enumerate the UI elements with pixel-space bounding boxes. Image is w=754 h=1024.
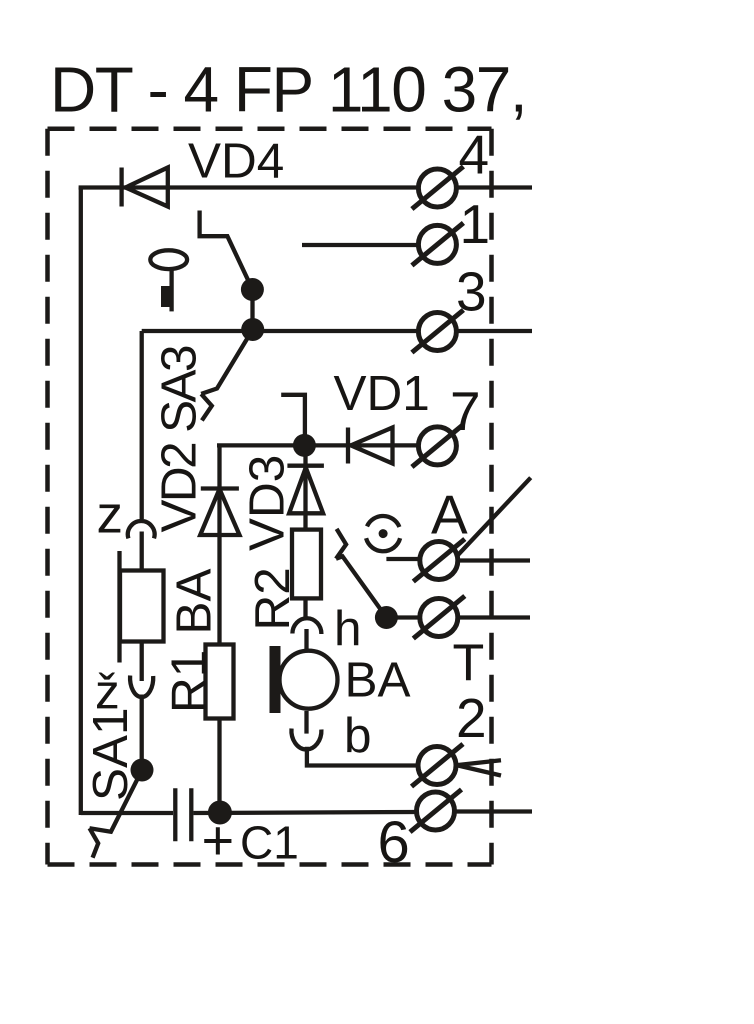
svg-text:DT - 4 FP 110 37,: DT - 4 FP 110 37,	[50, 54, 526, 126]
svg-text:R2: R2	[245, 567, 300, 630]
svg-text:SA1: SA1	[83, 707, 138, 801]
svg-text:R1: R1	[162, 650, 217, 713]
svg-text:7: 7	[450, 380, 481, 442]
svg-text:1: 1	[460, 193, 491, 255]
svg-text:BA: BA	[167, 568, 222, 634]
svg-text:BA: BA	[345, 653, 411, 708]
svg-text:z: z	[97, 486, 124, 545]
svg-text:b: b	[344, 708, 372, 763]
svg-text:3: 3	[456, 261, 487, 323]
svg-text:C1: C1	[240, 817, 299, 869]
svg-text:+: +	[202, 809, 235, 872]
svg-text:VD3: VD3	[240, 455, 295, 551]
svg-text:6: 6	[378, 810, 410, 875]
svg-text:VD1: VD1	[334, 366, 430, 421]
svg-text:A: A	[431, 484, 468, 546]
svg-text:T: T	[453, 635, 485, 693]
svg-text:h: h	[334, 601, 362, 656]
svg-text:VD2 SA3: VD2 SA3	[152, 346, 207, 532]
svg-text:VD4: VD4	[188, 134, 284, 189]
svg-text:2: 2	[456, 687, 487, 749]
svg-text:4: 4	[459, 124, 490, 186]
